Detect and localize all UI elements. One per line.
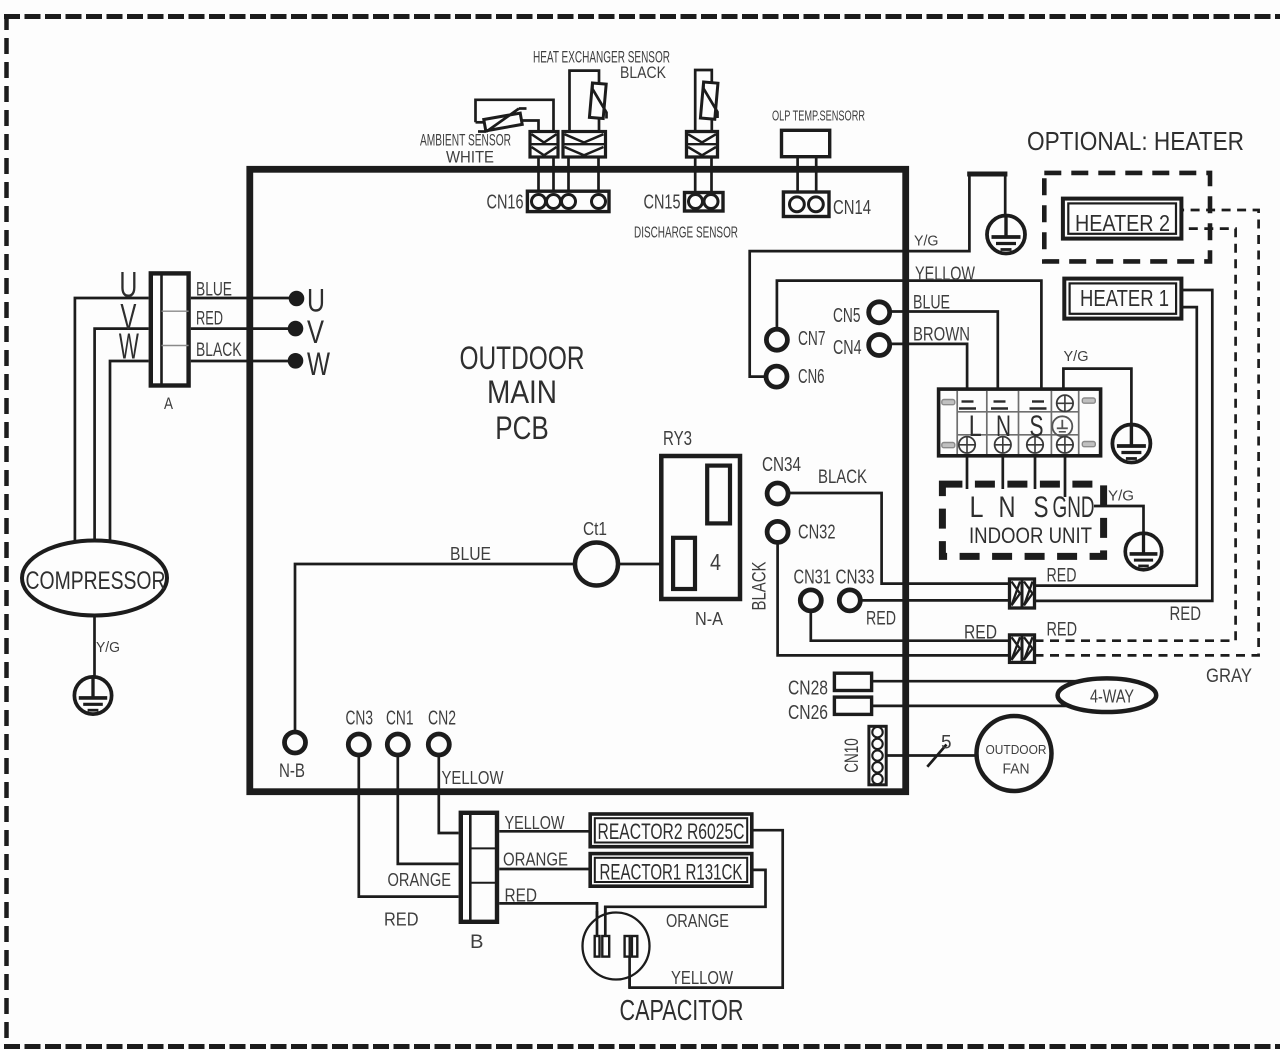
wire BLACK CN34 to connector F1 [786, 493, 1010, 584]
svg-text:OUTDOOR: OUTDOOR [986, 742, 1047, 757]
svg-text:N-A: N-A [695, 609, 723, 629]
svg-text:Y/G: Y/G [914, 233, 939, 250]
wire YELLOW from capacitor prong [628, 957, 631, 988]
wire RED into capacitor prong [596, 911, 599, 936]
wire CN28 to 4-WAY valve [872, 680, 1090, 683]
wire CN2 down to B-block [439, 756, 459, 833]
svg-text:RED: RED [384, 910, 419, 930]
svg-text:CN4: CN4 [833, 337, 862, 359]
indoor unit dashed box [942, 484, 1103, 556]
svg-text:S: S [1034, 491, 1049, 524]
outdoor fan motor [977, 716, 1052, 791]
wire discharge sensor loop [695, 70, 712, 133]
svg-text:PCB: PCB [495, 410, 549, 446]
svg-text:BLACK: BLACK [620, 63, 667, 82]
wire RED connector F1 to HEATER1 lower stub [1035, 307, 1197, 585]
wire V from A-block to node V [191, 327, 291, 330]
svg-text:CN2: CN2 [428, 708, 456, 730]
filter F2 heat exchanger [563, 132, 606, 158]
wire V phase from A-block to compressor [95, 329, 149, 543]
terminal S clamp [1030, 402, 1047, 409]
svg-text:S: S [1030, 410, 1044, 443]
pin CN2 [428, 734, 449, 755]
wire YELLOW B-block to REACTOR2 [499, 830, 590, 833]
OLP sensor box [782, 130, 830, 156]
svg-text:A: A [164, 394, 174, 413]
connector F1 red wires [1010, 579, 1035, 608]
connector CN26 [834, 697, 871, 714]
svg-text:RED: RED [196, 309, 223, 330]
svg-text:OUTDOOR: OUTDOOR [460, 340, 585, 376]
wire thermistor TH1 to filter F1 [520, 121, 539, 134]
wire ambient loop to thermistor TH1 [476, 121, 487, 124]
terminal earth mark [1052, 416, 1072, 436]
svg-text:MAIN: MAIN [487, 374, 557, 410]
connector CN14 [783, 192, 829, 217]
connector CN15 [685, 193, 724, 212]
svg-text:N-B: N-B [279, 761, 305, 782]
wire terminal S to indoor unit [1034, 456, 1037, 489]
wire RED CN31 down to connector F2 [811, 611, 1010, 641]
page dashed border left [4, 14, 9, 1048]
wire ORANGE REACTOR1 to capacitor prong [605, 870, 765, 937]
wire CN32 down to connector F2 [778, 542, 1010, 655]
svg-text:RED: RED [505, 886, 538, 906]
svg-text:GND: GND [1053, 491, 1095, 524]
svg-text:HEATER 2: HEATER 2 [1075, 210, 1170, 236]
svg-text:CN1: CN1 [386, 708, 414, 730]
capacitor body [583, 913, 650, 980]
connector F2 red/gray wires [1010, 635, 1035, 663]
svg-text:N: N [999, 491, 1016, 524]
pin CN31 [800, 590, 821, 611]
svg-text:CN3: CN3 [346, 708, 374, 730]
svg-text:DISCHARGE SENSOR: DISCHARGE SENSOR [634, 225, 738, 242]
svg-text:BLACK: BLACK [196, 340, 242, 361]
svg-text:CN16: CN16 [487, 192, 524, 214]
relay RY3 [661, 456, 740, 599]
wire filter F1 to CN16 pins 1-2 [539, 156, 554, 198]
terminal N clamp [991, 402, 1008, 409]
terminal bottom screws [959, 437, 975, 453]
svg-text:Ct1: Ct1 [583, 519, 607, 539]
svg-text:HEATER 1: HEATER 1 [1080, 285, 1169, 311]
node V [288, 321, 304, 337]
wire BLUE from CN5 to terminal N clamp [888, 312, 998, 401]
svg-text:COMPRESSOR: COMPRESSOR [26, 567, 166, 595]
HEATER 1 box [1064, 279, 1181, 319]
4-WAY valve [1058, 678, 1157, 712]
svg-text:CN32: CN32 [798, 522, 836, 544]
pin N-B [285, 732, 306, 753]
wire W from A-block to node W [191, 360, 291, 363]
svg-text:BLUE: BLUE [196, 280, 232, 301]
svg-text:RY3: RY3 [663, 428, 692, 450]
node U [289, 291, 305, 307]
pin CN5 [869, 302, 890, 323]
svg-text:RED: RED [964, 623, 997, 644]
page dashed border bottom [4, 1044, 1280, 1049]
svg-text:L: L [969, 410, 982, 443]
wire count slash 5 [927, 745, 946, 767]
pin CN6 [766, 366, 787, 387]
wire Y/G terminal ground screw to ground G2 [1063, 369, 1131, 425]
svg-text:CN26: CN26 [788, 702, 828, 724]
wire OLP sensor to CN14 pins [798, 157, 817, 199]
pin CN34 [767, 483, 788, 504]
connector CN10 [869, 726, 886, 785]
svg-text:5: 5 [941, 733, 952, 754]
wire BLUE from node N-B up and right to Ct1 [295, 564, 575, 731]
ground G1 top right [987, 216, 1025, 254]
HEATER 2 box [1063, 199, 1182, 239]
wire compressor to ground [93, 612, 96, 678]
svg-text:YELLOW: YELLOW [671, 968, 733, 988]
pin CN7 [766, 329, 787, 350]
svg-text:RED: RED [1047, 620, 1078, 641]
svg-text:Y/G: Y/G [96, 639, 120, 656]
svg-text:BLACK: BLACK [818, 467, 867, 488]
svg-text:V: V [307, 314, 325, 350]
svg-text:WHITE: WHITE [446, 148, 494, 167]
wire ambient sensor loop [476, 100, 554, 133]
optional heater dashed box [1044, 173, 1210, 262]
wire terminal L to indoor unit [966, 456, 969, 489]
svg-text:CN5: CN5 [833, 305, 861, 327]
compressor [22, 541, 167, 616]
svg-text:YELLOW: YELLOW [505, 813, 565, 833]
wire CN1 down to B-block [398, 756, 459, 864]
svg-text:CN33: CN33 [836, 567, 875, 589]
capacitor prongs [595, 936, 638, 957]
svg-text:W: W [119, 326, 139, 367]
connector block B [461, 813, 497, 922]
thermistor TH1 ambient sensor [484, 113, 522, 131]
wire YELLOW from CN7 to terminal S clamp [777, 281, 1042, 400]
wire RED dashed connector F2 to HEATER2 lower stub [1035, 229, 1236, 641]
svg-text:RED: RED [1047, 566, 1077, 587]
svg-text:4: 4 [710, 549, 721, 575]
wire ORANGE into capacitor prong [604, 906, 607, 936]
svg-text:CN6: CN6 [798, 366, 825, 388]
svg-text:4-WAY: 4-WAY [1090, 687, 1134, 707]
node W [288, 353, 304, 369]
REACTOR2 box [590, 814, 752, 847]
filter F3 discharge [687, 132, 718, 158]
svg-text:CN28: CN28 [788, 678, 828, 700]
svg-text:RED: RED [1170, 604, 1202, 625]
wire U phase from A-block to compressor [75, 298, 149, 543]
svg-text:REACTOR1 R131CK: REACTOR1 R131CK [600, 860, 743, 885]
connector CN28 [834, 673, 871, 690]
thermistor TH2 heat exchanger [589, 83, 606, 119]
ground G3 indoor unit [1125, 533, 1161, 569]
wire terminal N to indoor unit [1001, 456, 1004, 489]
svg-text:CN14: CN14 [833, 197, 871, 219]
wire W phase from A-block to compressor [110, 361, 149, 543]
PCB outline: OUTDOOR MAIN PCB board [250, 169, 906, 791]
svg-text:L: L [970, 491, 984, 524]
wire CN3 down to B-block [359, 756, 459, 897]
filter F1 ambient [530, 132, 558, 158]
svg-text:BROWN: BROWN [913, 325, 970, 346]
svg-text:GRAY: GRAY [1206, 666, 1252, 687]
wire BROWN from CN4 to terminal L clamp [888, 344, 967, 400]
wire CN33 to connector F1 [860, 599, 1010, 602]
REACTOR1 box [590, 854, 752, 887]
svg-text:RED: RED [866, 609, 896, 630]
wire ORANGE B-block to REACTOR1 [499, 868, 590, 871]
svg-text:CN31: CN31 [794, 567, 832, 589]
svg-text:OPTIONAL: HEATER: OPTIONAL: HEATER [1027, 126, 1244, 156]
thermistor TH3 discharge [700, 82, 718, 119]
svg-text:CN7: CN7 [798, 328, 826, 350]
svg-text:ORANGE: ORANGE [388, 870, 452, 890]
pin CN32 [767, 521, 788, 542]
wire CN10 to outdoor fan [886, 754, 990, 757]
wire CN26 to 4-WAY valve [872, 705, 1092, 708]
svg-text:ORANGE: ORANGE [666, 911, 729, 931]
wire GRAY dashed connector F2 to HEATER2 upper stub [1035, 210, 1259, 655]
svg-text:CN34: CN34 [762, 454, 801, 476]
svg-text:BLACK: BLACK [750, 561, 771, 610]
svg-text:OLP TEMP.SENSORR: OLP TEMP.SENSORR [772, 108, 865, 125]
connector block A [151, 273, 189, 385]
wire heat exchanger sensor loop [570, 71, 600, 133]
svg-text:Y/G: Y/G [1108, 488, 1134, 505]
svg-text:BLUE: BLUE [450, 544, 491, 564]
terminal GND screw top [1057, 395, 1073, 411]
wire U from A-block to node U [191, 297, 292, 300]
wire RED connector F1 to HEATER1 upper stub [1035, 290, 1213, 601]
wire filter F2 to CN16 pins 3-4 [569, 156, 599, 198]
svg-text:N: N [996, 410, 1011, 443]
ground G4 compressor [74, 677, 111, 714]
svg-text:ORANGE: ORANGE [503, 850, 568, 870]
pin CN4 [869, 335, 890, 356]
wire Y/G from CN6 to ground G1 [750, 174, 1006, 377]
wire Y/G indoor GND to ground G3 [1094, 506, 1144, 535]
terminal block L N S GND [939, 389, 1101, 456]
svg-text:CN10: CN10 [842, 738, 863, 773]
svg-text:YELLOW: YELLOW [442, 768, 504, 788]
page dashed border top [4, 14, 1280, 19]
pin CN33 [839, 590, 860, 611]
connector CN16 [527, 191, 609, 211]
terminal L clamp [959, 402, 976, 409]
ground G2 right of terminal block [1112, 425, 1150, 463]
svg-text:W: W [307, 346, 331, 382]
svg-text:B: B [470, 932, 484, 953]
current transformer Ct1 [575, 543, 618, 586]
svg-text:INDOOR UNIT: INDOOR UNIT [969, 523, 1092, 548]
svg-text:CN15: CN15 [644, 192, 681, 214]
wire terminal GND to indoor unit [1064, 456, 1067, 497]
wire filter F3 to CN15 pins [695, 156, 711, 198]
pin CN3 [348, 734, 369, 755]
svg-text:BLUE: BLUE [913, 293, 950, 314]
svg-text:YELLOW: YELLOW [915, 264, 975, 285]
pin CN1 [387, 734, 408, 755]
svg-text:REACTOR2 R6025C: REACTOR2 R6025C [598, 819, 745, 844]
svg-text:CAPACITOR: CAPACITOR [620, 995, 744, 1027]
wire YELLOW REACTOR2 to capacitor prong [630, 830, 783, 987]
wire RED B-block to capacitor prong [499, 903, 597, 937]
svg-text:FAN: FAN [1003, 762, 1030, 778]
wire Ct1 to RY3 pin [618, 563, 673, 566]
svg-text:Y/G: Y/G [1064, 348, 1089, 365]
